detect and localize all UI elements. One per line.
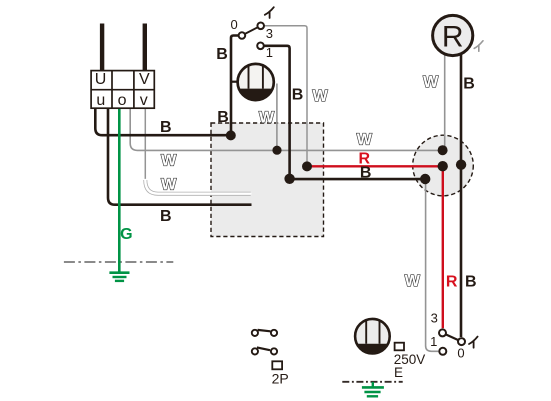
svg-text:1: 1 bbox=[430, 334, 437, 349]
wire source feed L bbox=[100, 24, 104, 71]
svg-text:W: W bbox=[259, 110, 275, 127]
switch SW1 (3-way, top) bbox=[230, 17, 273, 60]
svg-text:E: E bbox=[394, 365, 403, 380]
junction box JB1 (dashed square) bbox=[211, 123, 324, 237]
svg-text:B: B bbox=[465, 274, 477, 291]
junction box JB2 (dashed circle) bbox=[413, 135, 474, 196]
label イ for SW2 bbox=[469, 337, 478, 348]
chain line (bottom boundary) bbox=[342, 381, 402, 383]
wire red cross (dot4 to dotB) bbox=[307, 165, 443, 167]
svg-text:0: 0 bbox=[457, 346, 464, 361]
wire switch1 terminal3 leg (white) bbox=[265, 26, 308, 167]
wire green G (terminal box to ground) bbox=[118, 108, 121, 272]
label ロ for 2P bbox=[272, 361, 282, 369]
svg-text:B: B bbox=[292, 87, 304, 104]
svg-text:B: B bbox=[360, 165, 372, 182]
wire black lower B (terminal box stub into box) bbox=[108, 108, 252, 205]
svg-text:B: B bbox=[217, 109, 229, 126]
label イ for SW1 bbox=[265, 7, 274, 18]
switch SW2 (3-way, bottom) bbox=[430, 310, 465, 360]
wire switch1 terminal0 leg (black) bbox=[231, 36, 238, 136]
ground (bottom) bbox=[362, 382, 384, 396]
wire white W2 (terminal box stub into box) bbox=[144, 108, 146, 181]
svg-text:W: W bbox=[161, 153, 177, 170]
svg-text:1: 1 bbox=[266, 45, 273, 60]
svg-text:W: W bbox=[357, 132, 373, 149]
wire red down (dotB to switch2 terminal3) bbox=[442, 166, 444, 328]
node dot4 bbox=[302, 161, 312, 171]
svg-text:o: o bbox=[118, 92, 127, 109]
svg-text:G: G bbox=[120, 226, 132, 243]
terminal block bbox=[91, 71, 154, 109]
node dotD bbox=[420, 174, 430, 184]
node dot2 bbox=[272, 146, 281, 155]
wire white W1 (terminal box to junction A) bbox=[130, 108, 443, 150]
lamp receptacle L1 bbox=[238, 64, 274, 100]
wire switch1 terminal1 leg (black) bbox=[264, 46, 289, 179]
wire black cross (dot3 to dotD) bbox=[290, 178, 426, 181]
svg-text:B: B bbox=[160, 119, 172, 136]
wire lamp R black drop bbox=[460, 53, 463, 337]
wire source feed N bbox=[143, 24, 147, 71]
svg-text:R: R bbox=[442, 20, 464, 53]
node dotA bbox=[438, 145, 448, 155]
label ロ for outlet bbox=[395, 343, 404, 351]
svg-text:2P: 2P bbox=[272, 371, 289, 387]
lamp R bbox=[433, 15, 473, 55]
svg-text:3: 3 bbox=[431, 310, 438, 325]
outlet 250V E bbox=[355, 319, 390, 354]
wire lamp1 stub bbox=[231, 81, 238, 83]
svg-text:W: W bbox=[423, 74, 439, 91]
svg-text:V: V bbox=[139, 71, 150, 88]
svg-text:R: R bbox=[446, 274, 458, 291]
chain line (left boundary) bbox=[64, 261, 173, 263]
label イ for lamp R bbox=[474, 41, 483, 51]
wire white down (dotD to switch2 terminal1) bbox=[426, 179, 439, 351]
node dotB bbox=[438, 161, 448, 171]
svg-text:W: W bbox=[161, 176, 177, 193]
switch 2P bbox=[252, 330, 277, 355]
svg-text:W: W bbox=[313, 88, 329, 105]
svg-text:B: B bbox=[216, 46, 228, 63]
svg-text:3: 3 bbox=[266, 26, 273, 41]
svg-text:v: v bbox=[140, 92, 148, 109]
svg-text:W: W bbox=[405, 273, 421, 290]
node dotC bbox=[456, 160, 466, 170]
svg-text:B: B bbox=[463, 76, 475, 93]
node dot1 bbox=[226, 130, 236, 140]
wire lamp1 white drop bbox=[276, 84, 278, 151]
node dot3 bbox=[284, 174, 294, 184]
wire lamp R white drop bbox=[444, 53, 446, 150]
svg-text:U: U bbox=[95, 71, 107, 88]
svg-text:u: u bbox=[96, 92, 105, 109]
wire black upper B (terminal box to dot1) bbox=[95, 108, 231, 135]
svg-text:B: B bbox=[160, 208, 172, 225]
svg-text:0: 0 bbox=[230, 17, 237, 32]
ground (left) bbox=[109, 273, 129, 281]
